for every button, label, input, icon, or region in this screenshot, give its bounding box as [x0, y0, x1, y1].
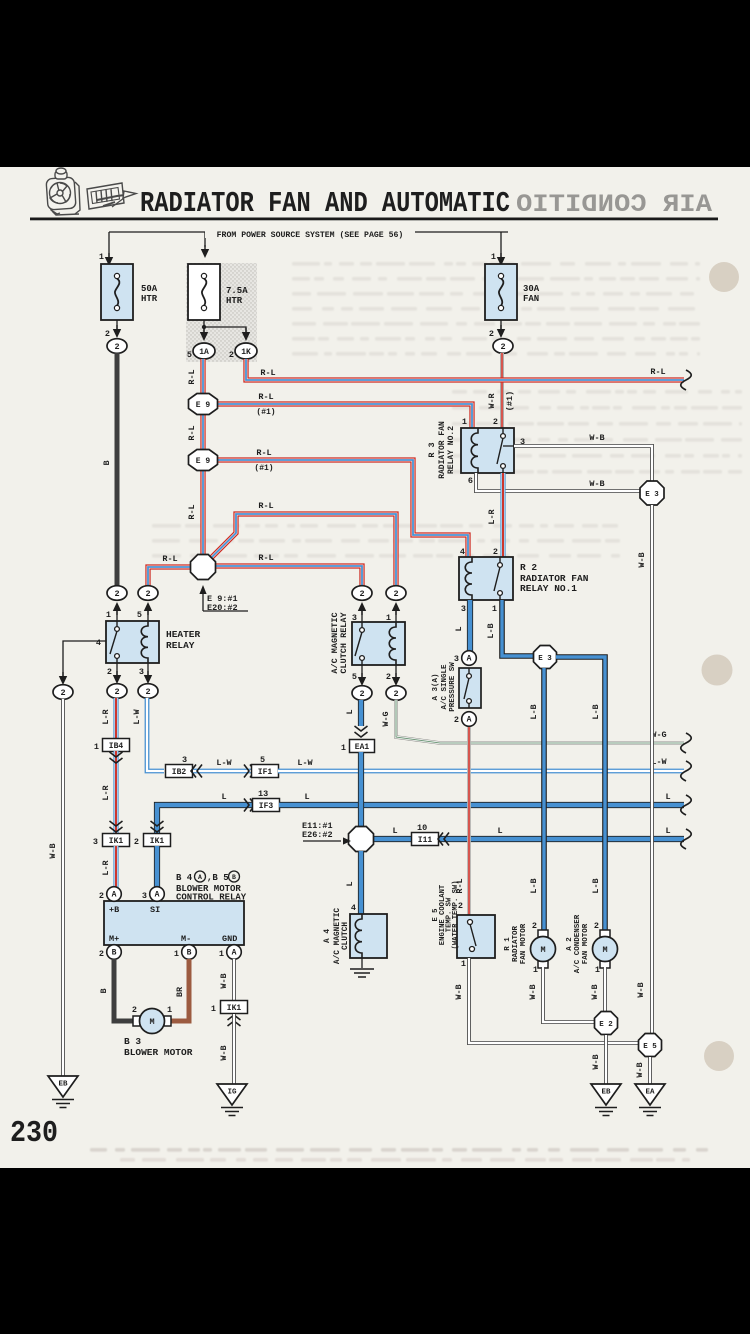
svg-text:FAN MOTOR: FAN MOTOR — [582, 923, 590, 964]
stippled highlight region around 7.5A fuse — [186, 263, 257, 362]
engine coolant temp switch box — [457, 915, 495, 958]
svg-text:W-B: W-B — [590, 984, 600, 999]
svg-text:2: 2 — [99, 949, 104, 959]
a/c vent icon — [87, 183, 136, 209]
ground below clutch A4 — [350, 969, 374, 977]
stem heater pin 2 — [116, 663, 118, 675]
svg-text:R 1: R 1 — [504, 937, 512, 951]
svg-text:(#1): (#1) — [505, 391, 515, 411]
connector IB2 — [166, 765, 193, 778]
svg-text:W-B: W-B — [635, 1062, 645, 1077]
svg-text:R-L: R-L — [260, 368, 275, 378]
punch hole bottom — [704, 1041, 734, 1071]
svg-text:L-R: L-R — [101, 784, 111, 800]
connector 2 above heater relay pin 1 — [107, 586, 127, 601]
svg-text:E 2: E 2 — [599, 1021, 613, 1029]
svg-text:2: 2 — [114, 687, 119, 697]
connector E5 — [639, 1034, 662, 1057]
svg-text:IF1: IF1 — [258, 768, 273, 777]
chevrons below IB4 — [110, 752, 123, 763]
svg-text:3: 3 — [93, 837, 98, 847]
svg-text:2: 2 — [489, 329, 494, 339]
svg-text:A/C MAGNETIC: A/C MAGNETIC — [334, 908, 342, 964]
connector IK1 pin 1 — [221, 1001, 248, 1014]
junction node E11/E26 — [349, 827, 374, 852]
connector E3 lower — [534, 646, 557, 669]
svg-text:2: 2 — [114, 589, 119, 599]
svg-text:(WATER TEMP. SW): (WATER TEMP. SW) — [452, 880, 460, 949]
connector 2 above clutch relay pin 1 — [386, 586, 406, 601]
arrow into 7.5A fuse — [201, 245, 209, 258]
wire R-L from 1A to connector E9 — [200, 359, 205, 394]
wire L-B R2 pin 1 to connector E3 lower — [502, 600, 534, 656]
connector IK1 pin 2 — [144, 834, 171, 847]
svg-text:L-W: L-W — [132, 708, 142, 724]
svg-text:2: 2 — [393, 589, 398, 599]
svg-text:6: 6 — [468, 476, 473, 486]
svg-text:2: 2 — [114, 342, 119, 352]
svg-text:3: 3 — [182, 755, 187, 765]
connector 2 above heater relay pin 5 — [138, 586, 158, 601]
wire L junction to I11 and right edge — [373, 836, 684, 842]
svg-text:BR: BR — [175, 986, 185, 997]
svg-text:R-L: R-L — [162, 554, 177, 564]
svg-text:HEATER: HEATER — [166, 629, 201, 640]
svg-text:W-B: W-B — [589, 479, 604, 489]
svg-text:1: 1 — [99, 252, 104, 262]
svg-text:A: A — [198, 874, 202, 881]
chevrons below lower IK1 — [228, 1015, 241, 1026]
wire R-L junction to heater relay pin 5 — [148, 567, 190, 586]
svg-text:L: L — [221, 792, 226, 802]
relay R3 box — [461, 428, 514, 473]
wire L-R IK1 to blower relay — [113, 846, 118, 888]
svg-text:IF3: IF3 — [259, 802, 274, 811]
svg-text:2: 2 — [493, 417, 498, 427]
svg-text:30A: 30A — [523, 284, 540, 294]
svg-text:FROM POWER SOURCE SYSTEM (SEE: FROM POWER SOURCE SYSTEM (SEE PAGE 56) — [217, 230, 404, 240]
wire W-B coolant switch to E5 connector — [469, 958, 639, 1043]
connector E9 number 2 — [189, 450, 218, 471]
svg-text:,B 5: ,B 5 — [207, 873, 229, 883]
connector I11 — [412, 833, 439, 846]
svg-text:FAN: FAN — [523, 294, 539, 304]
svg-text:E 9: E 9 — [196, 401, 211, 410]
svg-text:2: 2 — [99, 891, 104, 901]
svg-text:3: 3 — [461, 604, 466, 614]
wire L from IK1 up to IF3 line — [157, 805, 252, 834]
wire B from 50A connector down to heater relay — [115, 353, 120, 586]
svg-text:2: 2 — [132, 1005, 137, 1015]
svg-text:M: M — [149, 1017, 154, 1027]
ground IG — [217, 1084, 247, 1116]
a/c magnetic clutch relay box — [352, 622, 405, 665]
stem clutch pin 5 — [361, 665, 363, 677]
svg-text:W-B: W-B — [637, 552, 647, 567]
svg-text:(#1): (#1) — [256, 408, 275, 417]
svg-text:RELAY NO.2: RELAY NO.2 — [447, 426, 456, 474]
svg-text:W-B: W-B — [591, 1054, 601, 1069]
continuation curl L-W — [681, 761, 692, 781]
svg-text:R-L: R-L — [258, 501, 273, 511]
svg-text:EA: EA — [645, 1089, 655, 1097]
svg-text:W-B: W-B — [219, 973, 229, 988]
svg-text:3: 3 — [139, 667, 144, 677]
svg-text:RADIATOR: RADIATOR — [512, 926, 520, 963]
svg-text:W-B: W-B — [48, 843, 58, 858]
stem clutch pin 2 — [395, 665, 397, 677]
svg-text:L-B: L-B — [486, 623, 496, 638]
a/c magnetic clutch component A4 — [350, 914, 387, 958]
wire R-L from E9 no1 to relay R3 pin 1 — [217, 404, 472, 428]
svg-text:2: 2 — [145, 687, 150, 697]
motor A2 a/c condenser fan — [593, 930, 618, 968]
relay R2 box — [459, 557, 513, 600]
punch hole top — [709, 262, 739, 292]
connector EA1 — [350, 740, 375, 753]
svg-text:1K: 1K — [241, 348, 251, 357]
connector A at blower relay +B — [107, 887, 122, 902]
svg-text:E26:#2: E26:#2 — [302, 830, 333, 840]
svg-text:IK1: IK1 — [109, 837, 124, 846]
svg-text:HTR: HTR — [141, 294, 158, 304]
connector 2 on heater pin 4 wire — [53, 685, 73, 700]
ground EA — [635, 1084, 665, 1116]
connector B at blower relay M- — [182, 945, 197, 960]
svg-text:EB: EB — [601, 1089, 611, 1097]
svg-text:4: 4 — [460, 547, 465, 557]
svg-text:L-B: L-B — [529, 878, 539, 893]
svg-text:1: 1 — [174, 949, 179, 959]
svg-text:B 3: B 3 — [124, 1036, 141, 1047]
svg-text:5: 5 — [137, 610, 142, 620]
stem clutch pin 3 — [361, 611, 363, 622]
power source feed line — [109, 231, 508, 233]
wire R-L junction to clutch relay pin 3 — [215, 566, 362, 586]
wire L-R IB4 to IK1 — [113, 751, 118, 834]
svg-text:+B: +B — [109, 905, 119, 915]
svg-text:1: 1 — [341, 743, 346, 753]
svg-text:B 4: B 4 — [176, 873, 193, 883]
ground EB right — [591, 1084, 621, 1116]
svg-text:A: A — [155, 891, 160, 900]
wire W-R from 30A connector down to relay R3 pin 2 — [500, 353, 504, 428]
connector IB4 — [103, 739, 130, 752]
arrow clutch pin 3 — [358, 602, 366, 615]
power feed drop to 50A fuse — [108, 232, 110, 257]
svg-text:2: 2 — [386, 672, 391, 682]
svg-text:RADIATOR FAN AND AUTOMATIC: RADIATOR FAN AND AUTOMATIC — [140, 187, 510, 220]
svg-text:R-L: R-L — [258, 553, 273, 563]
wire L-W IB2 to IF1 — [193, 769, 252, 774]
continuation curl R-L top right — [681, 370, 692, 390]
annotation arrow to junction — [199, 585, 248, 611]
wire R-L pressure switch to coolant temp switch — [467, 727, 471, 915]
svg-text:5: 5 — [187, 350, 192, 360]
heater relay pin 4 wire to left — [63, 641, 106, 676]
connector A at pressure switch top — [462, 651, 477, 666]
svg-text:4: 4 — [351, 903, 356, 913]
svg-text:E 3: E 3 — [645, 491, 659, 499]
svg-text:B: B — [99, 988, 109, 993]
arrow into 1K connector — [242, 328, 250, 341]
svg-text:IG: IG — [227, 1089, 237, 1097]
svg-text:L-R: L-R — [487, 508, 497, 524]
svg-text:A/C CONDENSER: A/C CONDENSER — [574, 914, 582, 973]
svg-text:1: 1 — [595, 965, 600, 975]
svg-text:EA1: EA1 — [355, 743, 370, 752]
connector 2 below 30A fuse — [493, 339, 513, 354]
svg-text:2: 2 — [532, 921, 537, 931]
connector E9 number 1 — [189, 394, 218, 415]
connector E3 right — [640, 481, 664, 505]
svg-text:W-B: W-B — [589, 433, 604, 443]
svg-text:R-L: R-L — [650, 367, 665, 377]
connector IK1 pin 3 — [103, 834, 130, 847]
svg-text:L: L — [345, 881, 355, 886]
svg-text:2: 2 — [134, 837, 139, 847]
svg-text:R-L: R-L — [187, 504, 197, 519]
svg-text:R-L: R-L — [256, 448, 271, 458]
svg-text:EB: EB — [58, 1081, 68, 1089]
svg-text:L: L — [665, 792, 670, 802]
a/c single pressure switch box — [459, 668, 481, 708]
svg-text:L-R: L-R — [101, 859, 111, 875]
svg-text:1: 1 — [211, 1004, 216, 1014]
svg-text:2: 2 — [359, 689, 364, 699]
svg-text:L-W: L-W — [216, 758, 232, 768]
heater relay box — [106, 621, 159, 663]
svg-text:L-B: L-B — [591, 704, 601, 719]
wire W-G clutch relay to right edge — [396, 700, 684, 743]
svg-text:(#1): (#1) — [254, 464, 273, 473]
connector IF1 — [252, 765, 279, 778]
wire L-R R3 pin 5 to R2 pin 2 — [500, 473, 505, 557]
arrow into 30A fuse — [497, 253, 505, 266]
svg-text:2: 2 — [493, 547, 498, 557]
title rule — [30, 218, 718, 221]
wire L IK1 to blower relay pin SI — [154, 846, 160, 888]
arrow heater pin 3 down — [144, 671, 152, 684]
connector 2 below heater pin 3 — [138, 684, 158, 699]
svg-text:L: L — [304, 792, 309, 802]
svg-text:M: M — [602, 945, 607, 955]
svg-text:L-B: L-B — [591, 878, 601, 893]
svg-text:2: 2 — [60, 688, 65, 698]
svg-text:IK1: IK1 — [227, 1004, 242, 1013]
svg-text:L-B: L-B — [529, 704, 539, 719]
svg-text:FAN MOTOR: FAN MOTOR — [520, 923, 528, 964]
arrow into 50A fuse — [105, 253, 113, 266]
svg-text:A: A — [232, 949, 237, 958]
svg-text:2: 2 — [454, 715, 459, 725]
svg-text:2: 2 — [594, 921, 599, 931]
connector A at pressure switch bottom — [462, 712, 477, 727]
svg-text:230: 230 — [10, 1116, 58, 1151]
svg-text:1A: 1A — [199, 348, 209, 357]
svg-text:L-R: L-R — [101, 708, 111, 724]
svg-text:2: 2 — [145, 589, 150, 599]
connector 2 below clutch pin 5 — [352, 686, 372, 701]
arrow heater relay pin 5 — [144, 602, 152, 615]
svg-text:HTR: HTR — [226, 296, 243, 306]
wire W-B R1 motor to E2 — [543, 967, 594, 1022]
svg-text:SI: SI — [150, 905, 160, 915]
punch hole middle — [702, 655, 733, 686]
continuation curl L upper — [681, 795, 692, 815]
wire W-B E5 to ground EA — [648, 1057, 652, 1084]
svg-text:A 2: A 2 — [566, 937, 574, 951]
fuse 50A HTR — [101, 264, 133, 320]
blower motor B3 — [133, 1009, 171, 1034]
svg-text:2: 2 — [359, 589, 364, 599]
wire L IF3 to right edge — [279, 802, 684, 808]
svg-text:B: B — [187, 949, 192, 958]
svg-text:1: 1 — [461, 959, 466, 969]
wire L R2 pin 3 to pressure switch — [467, 600, 473, 651]
svg-text:2: 2 — [229, 350, 234, 360]
branch junction to 1K drop — [204, 327, 246, 332]
svg-text:RELAY: RELAY — [166, 640, 195, 651]
connector 2 below clutch pin 2 — [386, 686, 406, 701]
svg-text:BLOWER MOTOR: BLOWER MOTOR — [124, 1047, 193, 1058]
ground EB left — [48, 1076, 78, 1108]
wire R-L between E9 connectors — [200, 414, 205, 450]
connector 2 below 50A fuse — [107, 339, 127, 354]
arrow into left connector — [59, 672, 67, 685]
svg-text:1: 1 — [106, 610, 111, 620]
wire L-B E3 to A2 fan motor — [556, 657, 605, 931]
chevrons after I11 — [438, 833, 449, 846]
svg-text:E 9: E 9 — [196, 457, 211, 466]
svg-text:A 4: A 4 — [324, 929, 332, 943]
svg-text:R 3: R 3 — [427, 442, 437, 457]
svg-text:R-L: R-L — [258, 392, 273, 402]
wire W-B heater pin 4 to ground EB — [61, 699, 65, 1076]
wire R-L from E9 no2 down to junction — [200, 470, 205, 556]
svg-text:10: 10 — [417, 823, 427, 833]
wire L clutch relay to EA1 — [358, 700, 364, 726]
wire L EA1 down to junction E11 — [358, 752, 364, 828]
svg-text:2: 2 — [105, 329, 110, 339]
arrow into 1A connector — [200, 328, 208, 341]
svg-text:2: 2 — [107, 667, 112, 677]
svg-text:R-L: R-L — [187, 425, 197, 440]
svg-text:50A: 50A — [141, 284, 158, 294]
svg-text:W-G: W-G — [381, 711, 391, 726]
wire R-L junction to clutch relay pin 1 — [210, 514, 396, 586]
svg-text:13: 13 — [258, 789, 268, 799]
chevrons above IK1 no2 — [151, 821, 164, 832]
svg-text:A: A — [467, 655, 472, 664]
arrow clutch pin 5 down — [358, 673, 366, 686]
svg-text:1: 1 — [219, 949, 224, 959]
svg-text:A/C SINGLE: A/C SINGLE — [441, 664, 449, 710]
svg-text:L: L — [345, 709, 355, 714]
junction dot below 7.5A fuse — [202, 325, 206, 329]
wire R-L from E9 no2 to relay R2 pin 4 — [217, 460, 468, 557]
wire W-B IK1 to ground IG — [232, 1014, 236, 1084]
svg-text:AIR CONDITIO: AIR CONDITIO — [516, 190, 712, 219]
wire 7.5A fuse to junction — [203, 320, 205, 327]
svg-text:L: L — [454, 626, 464, 631]
radiator fan icon — [46, 168, 80, 215]
svg-text:1: 1 — [94, 742, 99, 752]
svg-text:CONTROL RELAY: CONTROL RELAY — [176, 892, 247, 902]
svg-text:B: B — [112, 949, 117, 958]
svg-text:GND: GND — [222, 934, 237, 944]
svg-text:2: 2 — [500, 342, 505, 352]
top letterbox bar — [0, 0, 750, 167]
svg-text:E 3: E 3 — [538, 655, 552, 663]
connector IF3 — [253, 799, 280, 812]
wire W-B R3 pin 6 to connector E3 — [476, 473, 641, 491]
connector 2 below heater pin 2 — [107, 684, 127, 699]
svg-text:L: L — [497, 826, 502, 836]
wire 50A fuse to connector — [116, 320, 118, 329]
stem heater pin 3 — [147, 663, 149, 675]
svg-text:CLUTCH: CLUTCH — [342, 922, 350, 950]
bottom letterbox bar — [0, 1168, 750, 1334]
connector E2 — [595, 1012, 618, 1035]
fuse 30A FAN — [485, 264, 517, 320]
connector 2 above clutch relay pin 3 — [352, 586, 372, 601]
svg-text:1: 1 — [462, 417, 467, 427]
svg-text:PRESSURE SW: PRESSURE SW — [449, 662, 457, 712]
svg-text:W-B: W-B — [528, 984, 538, 999]
continuation curl L lower — [681, 829, 692, 849]
stem heater pin 5 — [147, 611, 149, 621]
connector B at blower relay M+ — [107, 945, 122, 960]
svg-text:B: B — [232, 874, 236, 881]
chevrons above IK1 no3 — [110, 821, 123, 832]
svg-text:1: 1 — [491, 252, 496, 262]
annotation arrow to E11 junction — [303, 837, 351, 844]
connector A at blower relay GND — [227, 945, 242, 960]
wire BR blower relay to motor — [170, 959, 189, 1021]
svg-text:5: 5 — [260, 755, 265, 765]
junction node E9/E20 — [191, 555, 216, 580]
wire W-B from E3 down to E5 — [650, 505, 654, 1035]
svg-text:B: B — [102, 460, 112, 465]
power feed drop to 30A fuse — [500, 232, 502, 257]
svg-text:1: 1 — [492, 604, 497, 614]
svg-text:IB2: IB2 — [172, 768, 187, 777]
svg-text:RADIATOR FAN: RADIATOR FAN — [438, 421, 447, 479]
chevrons after IB2 — [191, 765, 202, 778]
wire L-B E3 down to R1 fan motor — [541, 668, 547, 931]
arrow clutch pin 2 down — [392, 673, 400, 686]
wire R-L from 1K to right edge — [246, 359, 684, 380]
blower motor control relay box — [104, 901, 244, 945]
svg-text:E 5: E 5 — [643, 1043, 657, 1051]
fuse 7.5A HTR — [188, 264, 220, 320]
svg-text:CLUTCH RELAY: CLUTCH RELAY — [339, 612, 349, 674]
svg-text:IK1: IK1 — [150, 837, 165, 846]
svg-text:A 3(A): A 3(A) — [432, 673, 440, 700]
svg-text:W-B: W-B — [454, 984, 464, 999]
wire clutch A4 to ground — [361, 958, 363, 968]
wire L-R heater pin 2 to IB4 — [113, 698, 118, 740]
connector A at blower relay SI — [150, 887, 165, 902]
svg-text:W-R: W-R — [487, 392, 497, 408]
arrow heater pin 2 down — [113, 671, 121, 684]
power feed drop to 7.5A fuse — [204, 232, 206, 247]
chevrons above EA1 — [355, 726, 368, 737]
wire L-W IF1 to right edge — [278, 769, 684, 774]
svg-text:5: 5 — [352, 672, 357, 682]
arrow into connector below 50A — [113, 325, 121, 338]
